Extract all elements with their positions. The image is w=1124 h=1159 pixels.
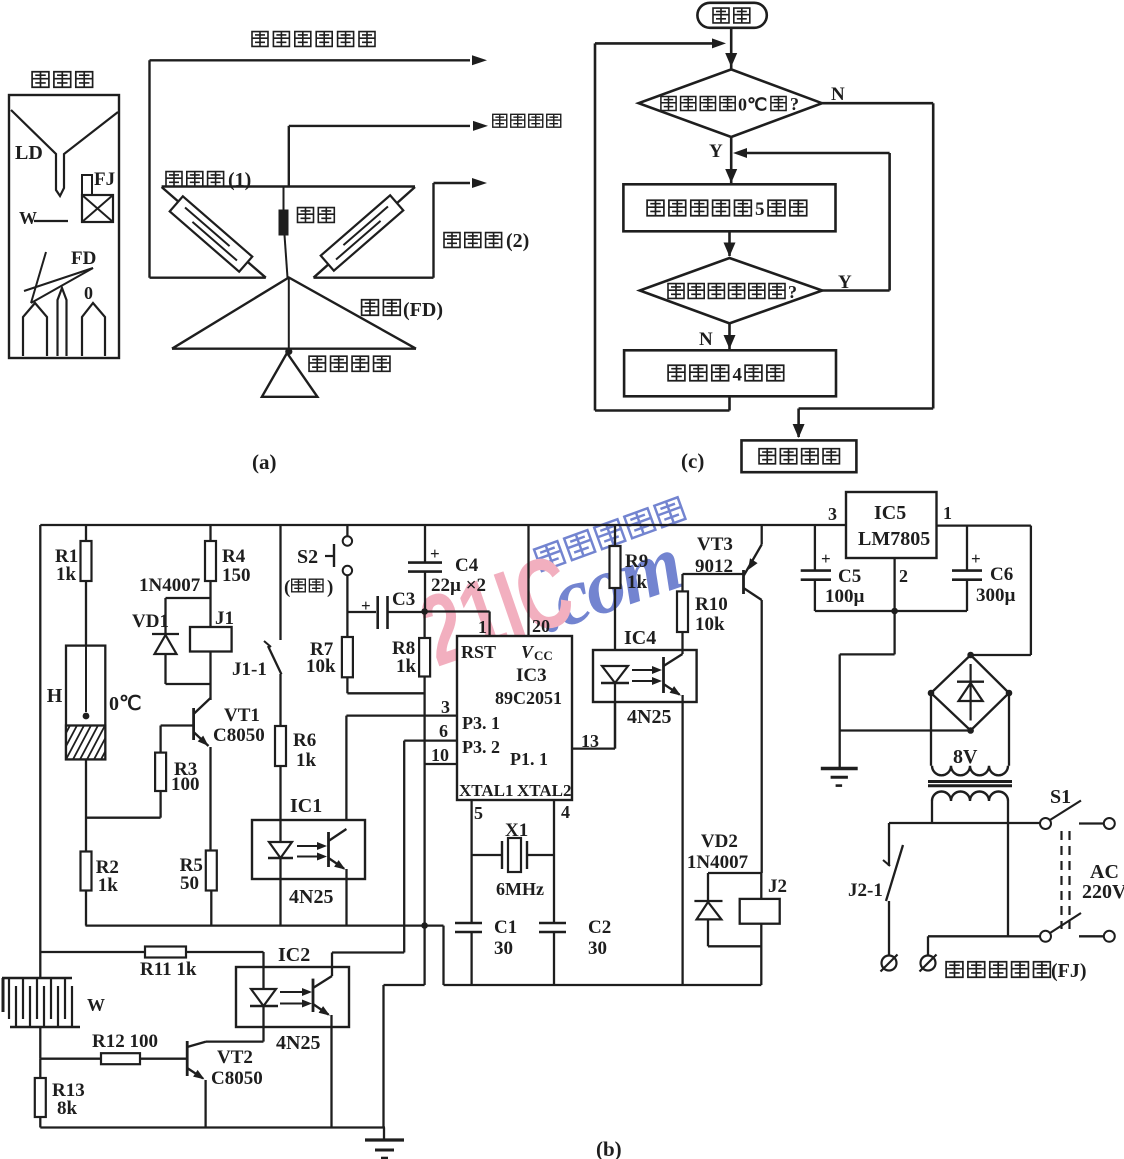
resistor R7 10k xyxy=(342,637,353,677)
svg-text:RST: RST xyxy=(461,642,496,662)
svg-text:4N25: 4N25 xyxy=(276,1032,320,1054)
resistor R3 100 xyxy=(155,753,166,791)
svg-text:3: 3 xyxy=(828,504,837,524)
transistor VT3 9012 xyxy=(742,570,745,594)
svg-text:5: 5 xyxy=(474,803,483,823)
wire pin1 line xyxy=(937,524,1031,526)
svg-text:1k: 1k xyxy=(56,564,77,585)
svg-text:+: + xyxy=(361,596,371,615)
watermark 21IC.com 中国电子网 xyxy=(408,497,691,688)
relay contact J1-1 xyxy=(279,525,281,640)
svg-text:150: 150 xyxy=(222,565,251,586)
ground upper xyxy=(821,767,858,770)
resistor R9 1k xyxy=(614,525,616,546)
svg-text:IC2: IC2 xyxy=(278,944,310,966)
wire left big loop xyxy=(595,42,712,45)
diode VD2 1N4007 xyxy=(708,872,761,874)
svg-text:30: 30 xyxy=(588,938,607,959)
svg-text:R4: R4 xyxy=(222,546,246,567)
label Y xyxy=(709,141,723,162)
wire C5-C6 ground link xyxy=(815,610,967,612)
capacitor C5 100u xyxy=(814,525,816,571)
capacitor C2 30 xyxy=(553,855,555,923)
svg-text:10k: 10k xyxy=(695,614,725,635)
svg-text:(2): (2) xyxy=(506,230,529,252)
optocoupler IC4 4N25 xyxy=(593,650,697,702)
svg-text:(c): (c) xyxy=(681,449,704,473)
svg-text:9012: 9012 xyxy=(695,556,733,577)
svg-text:S2: S2 xyxy=(297,546,318,568)
wire bridge top to pin1 xyxy=(971,654,1031,656)
diamond2 检测到雪水否? xyxy=(640,258,822,323)
svg-text:LD: LD xyxy=(15,142,43,164)
svg-text:P3. 2: P3. 2 xyxy=(462,737,500,757)
svg-text:J2: J2 xyxy=(768,876,787,897)
capacitor C1 30 xyxy=(470,855,472,923)
pushbutton S2 (复位) xyxy=(346,525,348,536)
ground lower xyxy=(383,1128,385,1141)
svg-text:XTAL2: XTAL2 xyxy=(517,781,571,800)
svg-text:100: 100 xyxy=(171,774,200,795)
svg-text:(b): (b) xyxy=(596,1137,622,1159)
svg-text:(FD): (FD) xyxy=(403,299,443,321)
resistor R11 1k xyxy=(40,951,145,953)
svg-text:89C2051: 89C2051 xyxy=(495,688,562,708)
svg-text:R9: R9 xyxy=(625,551,648,572)
svg-text:H: H xyxy=(47,685,63,707)
wire return loop from diamond2-Y xyxy=(737,152,890,155)
svg-text:6: 6 xyxy=(439,721,448,741)
FD tipping bucket sketch xyxy=(31,252,46,303)
magnet 磁钢 xyxy=(283,187,285,211)
svg-text:J1-1: J1-1 xyxy=(232,659,267,680)
svg-text:C1: C1 xyxy=(494,917,517,938)
svg-text:1N4007: 1N4007 xyxy=(139,575,201,596)
svg-text:8V: 8V xyxy=(953,746,978,768)
label 干簧管(2) xyxy=(444,233,502,248)
transistor VT2 C8050 xyxy=(186,1041,189,1076)
node RST junction xyxy=(421,608,428,615)
label 接热吹风机(FJ) xyxy=(946,962,1050,978)
wire start to diamond1 xyxy=(730,28,733,70)
wire diamond1 to box1 xyxy=(730,137,733,183)
wire ground rail upper xyxy=(86,924,425,926)
svg-text:?: ? xyxy=(788,282,797,302)
flowchart box2 时间延时4小时 xyxy=(624,350,836,396)
svg-text:C8050: C8050 xyxy=(213,725,265,746)
wire to terminal 去终端机 xyxy=(288,126,290,187)
svg-text:P1. 1: P1. 1 xyxy=(510,749,548,769)
svg-text:C3: C3 xyxy=(392,589,415,610)
svg-text:J1: J1 xyxy=(215,608,234,629)
snow sensor W comb xyxy=(39,952,41,978)
svg-text:1k: 1k xyxy=(296,750,317,771)
svg-text:C6: C6 xyxy=(990,564,1013,585)
svg-text:4: 4 xyxy=(561,802,570,822)
svg-text:+: + xyxy=(430,544,440,563)
svg-text:8k: 8k xyxy=(57,1098,78,1119)
svg-text:XTAL1: XTAL1 xyxy=(459,781,513,800)
svg-text:50: 50 xyxy=(180,873,199,894)
svg-text:(FJ): (FJ) xyxy=(1051,960,1087,982)
svg-text:300µ: 300µ xyxy=(976,585,1016,606)
optocoupler IC2 4N25 xyxy=(236,967,349,1027)
crystal X1 6MHz xyxy=(470,800,472,855)
bridge rectifier xyxy=(931,655,1009,731)
svg-text:N: N xyxy=(699,329,713,350)
svg-text:V: V xyxy=(521,642,535,662)
svg-text:VT2: VT2 xyxy=(217,1047,253,1068)
svg-text:CC: CC xyxy=(534,648,553,663)
W level mark xyxy=(19,208,37,228)
svg-text:?: ? xyxy=(790,94,799,114)
wire pin3 xyxy=(346,714,457,716)
wire left border xyxy=(39,525,41,952)
svg-text:C8050: C8050 xyxy=(211,1068,263,1089)
svg-text:1N4007: 1N4007 xyxy=(687,852,749,873)
svg-text:VD1: VD1 xyxy=(132,611,169,632)
temperature sensor H 0C xyxy=(66,646,105,760)
svg-text:5: 5 xyxy=(755,199,765,220)
reed bracket top line xyxy=(162,185,415,187)
capacitor C3 xyxy=(347,611,376,613)
svg-text:4N25: 4N25 xyxy=(627,706,671,728)
wire +V top rail xyxy=(40,524,846,526)
diode VD1 1N4007 loop xyxy=(166,597,211,599)
wire pin10 xyxy=(425,763,457,765)
wire pin6 xyxy=(404,739,457,741)
wire to pin1 RST xyxy=(425,610,490,612)
svg-text:30: 30 xyxy=(494,938,513,959)
resistor R4 150 xyxy=(209,525,211,541)
svg-text:1k: 1k xyxy=(98,875,119,896)
svg-text:W: W xyxy=(19,208,37,228)
resistor R6 1k xyxy=(275,726,286,766)
svg-text:3: 3 xyxy=(441,697,450,717)
svg-text:0℃: 0℃ xyxy=(109,693,141,715)
svg-text:): ) xyxy=(327,577,333,598)
flowchart box1 热风机工作5分钟 xyxy=(623,184,835,231)
resistor R13 8k xyxy=(39,1059,41,1078)
wire left frame xyxy=(148,60,150,277)
svg-text:IC1: IC1 xyxy=(290,795,322,817)
wire pin2 xyxy=(893,558,895,611)
wire diamond2 to box2 xyxy=(728,323,731,349)
reed switch 1 xyxy=(170,196,253,271)
terminal 1 xyxy=(882,956,897,971)
svg-text:22µ ×2: 22µ ×2 xyxy=(431,575,486,596)
capacitor C4 22ux2 xyxy=(424,525,426,563)
relay coil J2 xyxy=(760,873,762,985)
svg-text:W: W xyxy=(87,995,105,1015)
reed switch 2 xyxy=(321,195,404,270)
svg-text:+: + xyxy=(971,549,981,568)
resistor R5 50 xyxy=(206,851,217,891)
node junction on ground rail xyxy=(421,922,428,929)
svg-text:R11 1k: R11 1k xyxy=(140,959,197,980)
wire bridge bottom to ground xyxy=(840,729,971,731)
voltage regulator IC5 LM7805 xyxy=(846,492,937,558)
relay coil J1 xyxy=(209,598,211,627)
resistor R1 1k xyxy=(85,525,87,541)
svg-text:N: N xyxy=(831,84,845,105)
switch S1 xyxy=(1050,786,1071,808)
svg-text:0℃: 0℃ xyxy=(738,95,767,115)
transformer T 8V xyxy=(930,693,932,766)
svg-text:4N25: 4N25 xyxy=(289,886,333,908)
IC3 89C2051 xyxy=(457,636,572,800)
label N xyxy=(831,84,845,105)
svg-text:(1): (1) xyxy=(228,169,251,191)
svg-text:220V: 220V xyxy=(1082,881,1124,903)
diamond1 气温低于0℃否? xyxy=(639,69,822,137)
svg-text:(a): (a) xyxy=(252,450,277,474)
svg-text:R6: R6 xyxy=(293,730,316,751)
svg-text:1k: 1k xyxy=(627,572,648,593)
svg-text:IC3: IC3 xyxy=(516,665,547,686)
wire signal-converter line with arrow xyxy=(150,59,471,61)
wire mid ground rail xyxy=(425,924,444,926)
fan FJ crossed box xyxy=(82,175,92,195)
svg-text:+: + xyxy=(821,549,831,568)
wire primary to S1/J2-1 xyxy=(889,822,1040,824)
svg-text:LM7805: LM7805 xyxy=(858,528,930,550)
wire N branch right xyxy=(822,102,933,105)
terminal 2 xyxy=(921,956,936,971)
svg-text:IC5: IC5 xyxy=(874,502,906,524)
tipping bucket 翻斗(FD) xyxy=(172,278,416,349)
wire pin13 xyxy=(572,747,615,749)
svg-text:2: 2 xyxy=(899,566,908,586)
resistor R8 1k xyxy=(423,612,425,639)
svg-text:Y: Y xyxy=(709,141,723,162)
svg-text:1k: 1k xyxy=(396,656,417,677)
funnel LD xyxy=(11,110,118,196)
svg-text:10: 10 xyxy=(431,745,449,765)
wire pin20 Vcc xyxy=(527,525,529,636)
transistor VT1 C8050 xyxy=(209,652,211,701)
svg-text:P3. 1: P3. 1 xyxy=(462,713,500,733)
svg-text:100µ: 100µ xyxy=(825,586,865,607)
svg-text:FD: FD xyxy=(71,248,96,269)
capacitor C6 300u xyxy=(966,526,968,571)
svg-text:10k: 10k xyxy=(306,656,336,677)
svg-text:R10: R10 xyxy=(695,594,728,615)
svg-text:4: 4 xyxy=(733,365,743,386)
svg-text:S1: S1 xyxy=(1050,786,1071,808)
wire bottom rail xyxy=(40,1126,385,1128)
flowchart box3 停止检测 xyxy=(742,440,857,472)
label 干簧管(1) xyxy=(166,172,224,187)
svg-text:X1: X1 xyxy=(505,820,528,841)
svg-text:0: 0 xyxy=(84,283,93,303)
rain gauge outer body 雨量筒 xyxy=(32,72,92,88)
resistor R12 100 xyxy=(40,1058,101,1060)
svg-text:VT3: VT3 xyxy=(697,534,733,555)
svg-text:VT1: VT1 xyxy=(224,705,260,726)
reed bracket slopes xyxy=(162,187,266,278)
svg-text:20: 20 xyxy=(532,616,550,636)
svg-text:6MHz: 6MHz xyxy=(496,879,544,899)
wire right frame to reed-switch-2 arrow xyxy=(314,277,434,279)
pivot 旋转支点 xyxy=(285,348,292,355)
svg-text:J2-1: J2-1 xyxy=(848,880,883,901)
svg-text:C4: C4 xyxy=(455,555,479,576)
svg-text:1: 1 xyxy=(943,503,952,523)
svg-text:VD2: VD2 xyxy=(701,831,738,852)
resistor R10 10k xyxy=(677,591,688,632)
svg-text:IC4: IC4 xyxy=(624,627,656,649)
svg-text:1: 1 xyxy=(478,617,487,637)
resistor R2 1k xyxy=(81,852,92,891)
svg-text:AC: AC xyxy=(1090,861,1119,883)
svg-text:Y: Y xyxy=(838,272,852,293)
wire junction to lower ground xyxy=(423,926,425,985)
wire box1 to diamond2 xyxy=(728,231,731,256)
collector tubes xyxy=(23,303,47,356)
svg-text:(: ( xyxy=(284,577,290,598)
relay contact J2-1 xyxy=(888,823,890,866)
svg-text:FJ: FJ xyxy=(94,169,115,190)
wire H to R3 bottom xyxy=(86,817,161,819)
flowchart start oval 开始 xyxy=(697,3,766,28)
svg-text:R12 100: R12 100 xyxy=(92,1031,158,1052)
svg-text:C2: C2 xyxy=(588,917,611,938)
label 信号转换电路 xyxy=(252,32,375,47)
svg-text:C5: C5 xyxy=(838,566,861,587)
optocoupler IC1 4N25 xyxy=(252,820,365,879)
